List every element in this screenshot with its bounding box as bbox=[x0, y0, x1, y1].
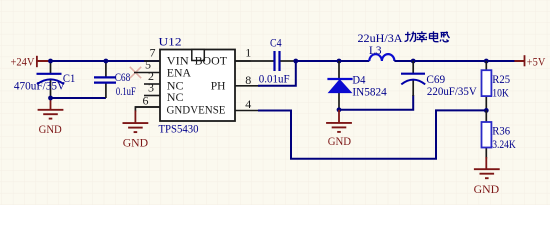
junction node at D4 top bbox=[337, 59, 342, 64]
wire C4 to PH node junction bbox=[280, 60, 295, 62]
pin 5 lead bbox=[134, 72, 160, 74]
capacitor C69 bbox=[401, 61, 477, 98]
wire L3 to +5V rail bbox=[394, 60, 514, 62]
svg-text:TPS5430: TPS5430 bbox=[159, 121, 199, 135]
capacitor C1 bbox=[14, 61, 75, 98]
wire VSENSE feedback route bbox=[258, 110, 486, 158]
svg-text:GND: GND bbox=[39, 122, 62, 136]
pin 7 lead bbox=[144, 60, 160, 62]
inductor L3 bbox=[369, 43, 394, 61]
junction node R25/R36 midpoint bbox=[484, 108, 489, 113]
wire +24V rail top-left bbox=[49, 60, 160, 62]
capacitor C68 bbox=[94, 61, 136, 98]
diode D4 IN5824 bbox=[327, 61, 386, 110]
svg-text:470uF/35V: 470uF/35V bbox=[14, 78, 65, 92]
junction node at R25 top bbox=[484, 59, 489, 64]
svg-text:GND: GND bbox=[123, 136, 149, 150]
svg-text:0.1uF: 0.1uF bbox=[116, 84, 136, 98]
no-ERC marker X on pin 5 bbox=[130, 67, 141, 78]
port +5V bbox=[514, 54, 545, 68]
pin 3 lead bbox=[144, 95, 160, 97]
resistor R36 bbox=[482, 110, 517, 158]
svg-text:R36: R36 bbox=[492, 124, 510, 138]
svg-text:8: 8 bbox=[245, 73, 251, 87]
svg-text:10K: 10K bbox=[492, 85, 509, 99]
pin 1 lead bbox=[235, 60, 251, 62]
svg-text:C68: C68 bbox=[115, 70, 131, 84]
label 22uH/3A power-inductor annotation bbox=[358, 31, 403, 45]
svg-text:U12: U12 bbox=[159, 35, 182, 49]
svg-text:1: 1 bbox=[245, 46, 251, 60]
resistor R25 bbox=[482, 61, 511, 110]
CJK glyph lü (率) bbox=[417, 31, 428, 42]
pin 8 lead bbox=[235, 85, 260, 87]
junction node at C69 top bbox=[411, 59, 416, 64]
junction node PH / C4 bbox=[293, 59, 298, 64]
pin 2 lead bbox=[144, 83, 160, 85]
ground GND under R36 bbox=[474, 157, 500, 196]
svg-text:R25: R25 bbox=[492, 72, 510, 86]
CJK glyph gan (感) bbox=[440, 32, 450, 42]
svg-text:3: 3 bbox=[148, 80, 154, 94]
svg-text:+5V: +5V bbox=[527, 54, 546, 68]
junction node on ground rail at C1 bottom bbox=[48, 96, 53, 101]
ground GND under pin 6 bbox=[123, 107, 161, 150]
svg-text:3.24K: 3.24K bbox=[492, 137, 516, 151]
ground GND under C1 bbox=[38, 98, 64, 136]
svg-text:PH: PH bbox=[211, 78, 226, 92]
junction node on +24V rail at C68 bbox=[104, 59, 109, 64]
pin 4 lead bbox=[235, 110, 260, 112]
svg-text:4: 4 bbox=[245, 97, 251, 111]
svg-text:0.01uF: 0.01uF bbox=[259, 71, 290, 85]
CJK glyph gong (功) bbox=[405, 32, 416, 42]
svg-text:+24V: +24V bbox=[11, 55, 35, 69]
svg-text:220uF/35V: 220uF/35V bbox=[427, 84, 477, 98]
svg-text:22uH/3A: 22uH/3A bbox=[358, 31, 403, 45]
port +24V bbox=[11, 55, 52, 69]
wire BOOT pin1 to C4 bbox=[235, 60, 274, 62]
wire PH node rail to L3 bbox=[296, 60, 370, 62]
junction node on +24V rail at C1 bbox=[48, 59, 53, 64]
svg-text:IN5824: IN5824 bbox=[352, 84, 386, 98]
CJK glyph dian (电) bbox=[430, 31, 439, 41]
ground GND under D4 bbox=[326, 110, 352, 148]
wire D4 bottom to C69 bottom bbox=[339, 95, 413, 110]
svg-text:GNDVENSE: GNDVENSE bbox=[167, 103, 226, 117]
svg-text:L3: L3 bbox=[369, 43, 382, 57]
IC U12 TPS5430 body bbox=[159, 35, 236, 136]
wire PH riser from pin 8 bbox=[258, 61, 296, 86]
svg-text:GND: GND bbox=[474, 182, 500, 196]
svg-text:C4: C4 bbox=[270, 36, 282, 50]
svg-text:GND: GND bbox=[328, 134, 352, 148]
junction node at D4 bottom bbox=[337, 107, 342, 112]
wire C1-C68 ground rail bbox=[51, 97, 106, 99]
capacitor C4 bbox=[259, 36, 290, 86]
svg-text:6: 6 bbox=[143, 94, 149, 108]
pin 6 lead bbox=[135, 106, 160, 108]
svg-text:BOOT: BOOT bbox=[195, 53, 228, 67]
